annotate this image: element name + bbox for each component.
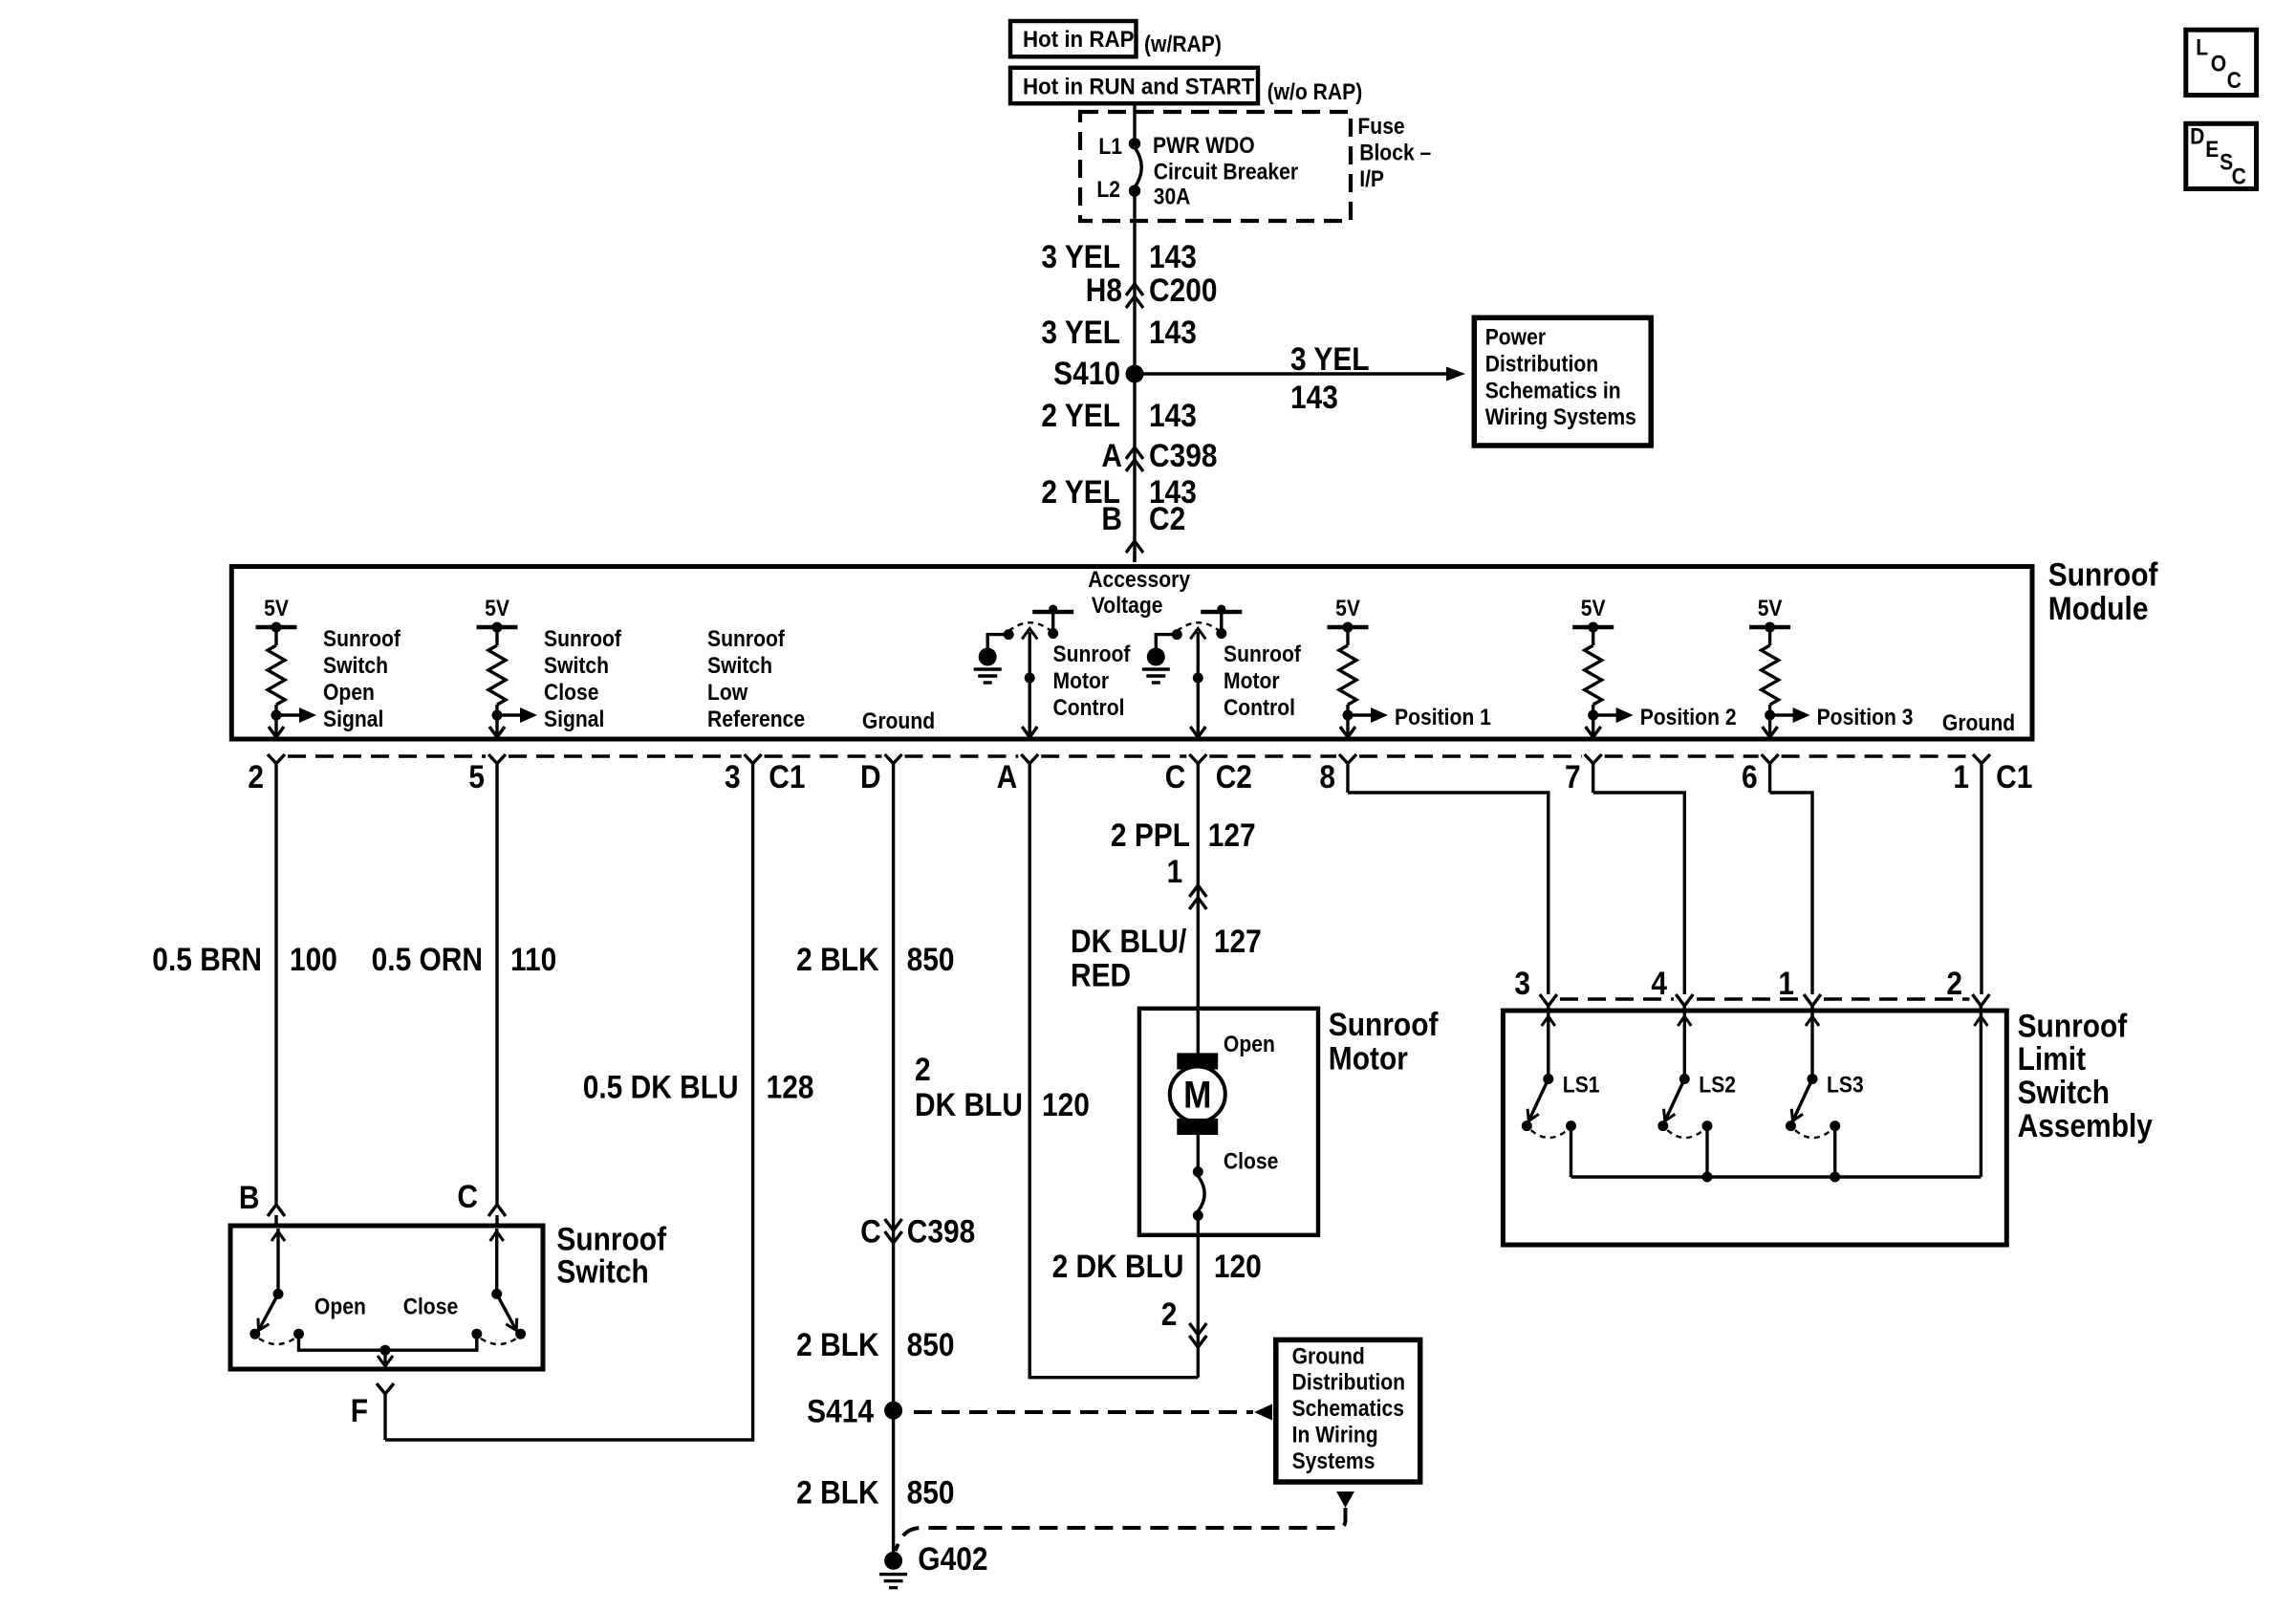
svg-text:D: D <box>2190 123 2204 149</box>
wire: breaker to module (3 YEL 143) <box>1133 191 1136 562</box>
svg-text:RED: RED <box>1071 957 1131 993</box>
dashed wire: S414 to ground distribution <box>914 1410 1253 1414</box>
svg-text:143: 143 <box>1149 238 1197 274</box>
sunroof limit switch assembly box <box>1503 1011 2006 1245</box>
svg-text:Motor: Motor <box>1329 1040 1408 1077</box>
svg-text:LS3: LS3 <box>1827 1072 1864 1098</box>
dashed connector line C1/C2 <box>288 754 486 757</box>
limit switch pin forks <box>1540 994 1557 1006</box>
sunroof module box <box>231 567 2032 740</box>
svg-text:C398: C398 <box>1149 437 1218 473</box>
svg-text:3 YEL: 3 YEL <box>1290 340 1370 377</box>
svg-text:143: 143 <box>1149 314 1197 350</box>
svg-text:G402: G402 <box>918 1540 987 1577</box>
svg-text:2 PPL: 2 PPL <box>1111 816 1190 853</box>
resistor: position 2 pull-up <box>1572 625 1614 630</box>
svg-text:Open: Open <box>1224 1032 1275 1057</box>
svg-text:1: 1 <box>1778 965 1794 1001</box>
svg-text:C: C <box>1165 758 1186 795</box>
wire: pin 6 to limit switch 1 <box>1770 793 1812 994</box>
svg-text:C2: C2 <box>1216 758 1252 795</box>
svg-text:Low: Low <box>707 680 748 706</box>
limit switch pin 2 arrow <box>1974 1016 1987 1026</box>
svg-text:C1: C1 <box>1996 758 2032 795</box>
svg-text:(w/RAP): (w/RAP) <box>1144 32 1222 57</box>
svg-text:Sunroof: Sunroof <box>707 626 785 652</box>
svg-text:Sunroof: Sunroof <box>323 626 401 652</box>
wire: pin 5 to sunroof switch C (0.5 ORN 110) <box>495 793 498 1204</box>
svg-text:1: 1 <box>1167 853 1183 889</box>
svg-text:127: 127 <box>1214 923 1262 959</box>
svg-text:Reference: Reference <box>707 707 805 732</box>
svg-text:2: 2 <box>248 758 264 795</box>
svg-text:Wiring Systems: Wiring Systems <box>1485 404 1636 430</box>
svg-text:4: 4 <box>1651 965 1667 1001</box>
switch B contact entry <box>271 1231 285 1241</box>
svg-text:Sunroof: Sunroof <box>2048 556 2158 593</box>
limit switch LS2 <box>1678 1016 1691 1026</box>
svg-text:3: 3 <box>1514 965 1530 1001</box>
svg-text:Hot in RAP: Hot in RAP <box>1023 26 1134 52</box>
svg-text:Voltage: Voltage <box>1092 593 1163 619</box>
svg-text:Ground: Ground <box>862 708 935 734</box>
svg-text:7: 7 <box>1565 758 1581 795</box>
svg-text:143: 143 <box>1290 379 1338 415</box>
svg-text:Systems: Systems <box>1292 1448 1375 1474</box>
svg-text:S414: S414 <box>807 1393 874 1429</box>
svg-text:850: 850 <box>907 1326 955 1362</box>
svg-text:DK BLU/: DK BLU/ <box>1071 923 1186 959</box>
LOC box <box>2186 30 2257 95</box>
wire: battery feed into circuit breaker <box>1133 105 1136 143</box>
svg-text:128: 128 <box>767 1069 814 1105</box>
svg-text:Sunroof: Sunroof <box>544 626 621 652</box>
motor M1 body <box>1170 1067 1225 1122</box>
svg-text:2 YEL: 2 YEL <box>1041 397 1120 433</box>
svg-text:Signal: Signal <box>544 707 604 732</box>
label box: Hot in RAP <box>1010 21 1137 56</box>
wire: pin C to sunroof motor (2 PPL 127) <box>1197 793 1200 1009</box>
svg-text:C: C <box>2227 68 2242 94</box>
svg-text:Control: Control <box>1224 695 1295 721</box>
svg-text:3 YEL: 3 YEL <box>1041 238 1120 274</box>
svg-text:8: 8 <box>1319 758 1335 795</box>
svg-text:E: E <box>2205 137 2219 163</box>
wire: motor to internal switch <box>1197 1135 1200 1172</box>
svg-text:Block –: Block – <box>1359 140 1431 165</box>
resistor: sunroof switch open signal pull-up <box>256 625 297 630</box>
svg-text:L2: L2 <box>1096 177 1120 203</box>
motor thermal switch <box>1193 1166 1203 1177</box>
svg-text:2: 2 <box>1946 965 1962 1001</box>
svg-text:Open: Open <box>323 680 375 706</box>
svg-text:Control: Control <box>1053 695 1125 721</box>
wire: S410 to power distribution <box>1135 372 1447 375</box>
svg-text:A: A <box>1101 437 1122 473</box>
svg-text:5V: 5V <box>1581 596 1606 621</box>
DESC box <box>2186 123 2257 188</box>
svg-text:0.5 ORN: 0.5 ORN <box>372 941 483 977</box>
svg-text:Sunroof: Sunroof <box>1329 1006 1439 1042</box>
svg-text:Sunroof: Sunroof <box>1224 642 1301 667</box>
svg-text:Motor: Motor <box>1053 668 1110 694</box>
switch: sunroof motor control C (with ground) <box>1201 610 1242 615</box>
limit switch LS3 <box>1806 1016 1819 1026</box>
svg-text:2 BLK: 2 BLK <box>796 941 878 977</box>
switch C contact entry <box>490 1231 504 1241</box>
svg-text:Sunroof: Sunroof <box>1053 642 1131 667</box>
svg-text:Switch: Switch <box>323 653 388 679</box>
svg-text:Switch: Switch <box>707 653 772 679</box>
box: Power Distribution Schematics in Wiring Systems <box>1474 317 1651 446</box>
wire: motor out (2 DK BLU 120) <box>1197 1215 1200 1377</box>
splice S414 <box>884 1402 902 1420</box>
svg-text:5V: 5V <box>1335 596 1360 621</box>
sunroof motor box <box>1139 1009 1318 1235</box>
svg-text:D: D <box>860 758 881 795</box>
dashed wire: ground distribution to G402 <box>1336 1491 1354 1508</box>
svg-text:In Wiring: In Wiring <box>1292 1422 1378 1448</box>
resistor: position 1 pull-up <box>1328 625 1369 630</box>
svg-text:C1: C1 <box>769 758 805 795</box>
svg-text:2: 2 <box>1161 1295 1178 1332</box>
limit switch LS1 <box>1542 1016 1555 1026</box>
svg-text:Position 2: Position 2 <box>1640 705 1737 730</box>
wire: pin 2 to sunroof switch B (0.5 BRN 100) <box>274 793 277 1204</box>
motor M1 commutator top <box>1177 1053 1218 1069</box>
svg-text:Fuse: Fuse <box>1357 114 1404 140</box>
svg-text:1: 1 <box>1953 758 1969 795</box>
pivot/contact dots Close switch <box>515 1329 526 1339</box>
svg-text:Ground: Ground <box>1292 1343 1365 1369</box>
svg-text:F: F <box>351 1392 368 1428</box>
svg-text:B: B <box>239 1179 260 1215</box>
label box: Hot in RUN and START <box>1010 68 1258 103</box>
svg-text:120: 120 <box>1042 1086 1090 1122</box>
svg-text:Limit: Limit <box>2018 1040 2087 1077</box>
ground G402 <box>884 1552 902 1570</box>
svg-text:6: 6 <box>1742 758 1758 795</box>
motor M1 commutator bottom <box>1177 1119 1218 1135</box>
svg-text:Circuit Breaker: Circuit Breaker <box>1154 159 1299 185</box>
svg-text:100: 100 <box>290 941 337 977</box>
svg-text:C200: C200 <box>1149 272 1218 308</box>
svg-text:C2: C2 <box>1149 500 1185 536</box>
svg-text:Ground: Ground <box>1942 710 2015 736</box>
svg-text:Close: Close <box>544 680 598 706</box>
svg-text:Motor: Motor <box>1224 668 1280 694</box>
sunroof switch box <box>230 1226 543 1369</box>
svg-text:Switch: Switch <box>556 1253 648 1290</box>
svg-text:2 BLK: 2 BLK <box>796 1474 878 1511</box>
svg-text:Accessory: Accessory <box>1088 567 1190 593</box>
svg-text:Sunroof: Sunroof <box>556 1221 666 1257</box>
svg-text:C398: C398 <box>907 1213 976 1250</box>
svg-text:S410: S410 <box>1053 355 1120 391</box>
svg-text:LS2: LS2 <box>1699 1072 1736 1098</box>
svg-text:127: 127 <box>1208 816 1256 853</box>
box: Ground Distribution Schematics In Wiring Systems <box>1276 1339 1420 1482</box>
svg-text:0.5 DK BLU: 0.5 DK BLU <box>583 1069 739 1105</box>
svg-text:Distribution: Distribution <box>1292 1369 1405 1395</box>
svg-text:110: 110 <box>510 941 556 977</box>
wire into motor <box>1197 1009 1200 1053</box>
svg-text:Close: Close <box>403 1294 458 1319</box>
circuit breaker CB1 30A PWR WDO <box>1129 138 1140 149</box>
wire: pin A motor control (2 DK BLU 120) <box>1029 793 1198 1378</box>
svg-text:5V: 5V <box>1758 596 1783 621</box>
svg-text:Module: Module <box>2048 590 2149 626</box>
svg-text:M: M <box>1183 1073 1211 1116</box>
switch common wire <box>299 1338 477 1350</box>
svg-text:2: 2 <box>915 1051 931 1087</box>
svg-text:Open: Open <box>314 1294 366 1319</box>
pivot/contact dots Open switch <box>249 1329 260 1339</box>
svg-text:3: 3 <box>725 758 741 795</box>
svg-text:Distribution: Distribution <box>1485 351 1598 377</box>
svg-text:Assembly: Assembly <box>2018 1107 2154 1143</box>
svg-text:I/P: I/P <box>1359 166 1384 192</box>
svg-text:PWR WDO: PWR WDO <box>1153 133 1255 159</box>
svg-text:C: C <box>860 1213 881 1250</box>
wire: pin 3 to switch F (0.5 DK BLU 128) <box>385 793 753 1440</box>
svg-text:O: O <box>2211 51 2226 76</box>
wire: pin 8 to limit switch 3 <box>1348 793 1549 994</box>
svg-text:B: B <box>1101 500 1122 536</box>
wire: pin 7 to limit switch 4 <box>1593 793 1685 994</box>
svg-text:Power: Power <box>1485 324 1547 350</box>
fuse block dashed box <box>1080 112 1351 221</box>
svg-text:Position 1: Position 1 <box>1395 705 1491 730</box>
pin F fork <box>377 1383 394 1394</box>
resistor: sunroof switch close signal pull-up <box>477 625 518 630</box>
svg-text:Position 3: Position 3 <box>1817 705 1914 730</box>
svg-text:A: A <box>997 758 1018 795</box>
switch: sunroof motor control A (with ground) <box>1032 610 1073 615</box>
svg-text:C: C <box>2232 163 2246 189</box>
svg-text:H8: H8 <box>1086 272 1122 308</box>
svg-text:L: L <box>2196 34 2208 60</box>
svg-text:Signal: Signal <box>323 707 383 732</box>
svg-text:5: 5 <box>468 758 485 795</box>
svg-text:L1: L1 <box>1098 134 1122 160</box>
svg-text:143: 143 <box>1149 397 1197 433</box>
svg-text:30A: 30A <box>1154 184 1191 209</box>
svg-text:0.5 BRN: 0.5 BRN <box>152 941 262 977</box>
svg-text:Close: Close <box>1224 1148 1278 1174</box>
svg-text:5V: 5V <box>485 596 509 621</box>
svg-text:C: C <box>457 1178 478 1214</box>
svg-text:5V: 5V <box>264 596 289 621</box>
connector pin forks <box>268 754 285 764</box>
svg-text:2 BLK: 2 BLK <box>796 1326 878 1362</box>
svg-text:3 YEL: 3 YEL <box>1041 314 1120 350</box>
switch blade Open <box>259 1294 279 1330</box>
svg-text:Hot in RUN and START: Hot in RUN and START <box>1023 74 1254 99</box>
svg-text:Switch: Switch <box>2018 1074 2110 1110</box>
svg-text:Sunroof: Sunroof <box>2018 1008 2128 1044</box>
svg-text:Schematics in: Schematics in <box>1485 378 1621 403</box>
wire: pin 1 to limit switch 2 <box>1980 793 1982 994</box>
wire: common to pin F <box>383 1350 386 1363</box>
limit switch common rail <box>1571 1175 1982 1178</box>
svg-text:Schematics: Schematics <box>1292 1396 1404 1422</box>
splice S410 <box>1126 365 1144 383</box>
svg-text:DK BLU: DK BLU <box>915 1086 1023 1122</box>
svg-text:(w/o RAP): (w/o RAP) <box>1267 79 1363 105</box>
svg-text:LS1: LS1 <box>1563 1072 1600 1098</box>
svg-text:2 DK BLU: 2 DK BLU <box>1052 1248 1184 1284</box>
svg-text:850: 850 <box>907 1474 955 1511</box>
resistor: position 3 pull-up <box>1749 625 1790 630</box>
svg-text:Switch: Switch <box>544 653 609 679</box>
switch blade Close <box>497 1294 517 1330</box>
svg-text:120: 120 <box>1214 1248 1262 1284</box>
limit switch dashed connector line <box>1560 997 1674 1000</box>
svg-text:850: 850 <box>907 941 955 977</box>
wire: pin D ground (2 BLK 850) <box>892 793 895 1553</box>
